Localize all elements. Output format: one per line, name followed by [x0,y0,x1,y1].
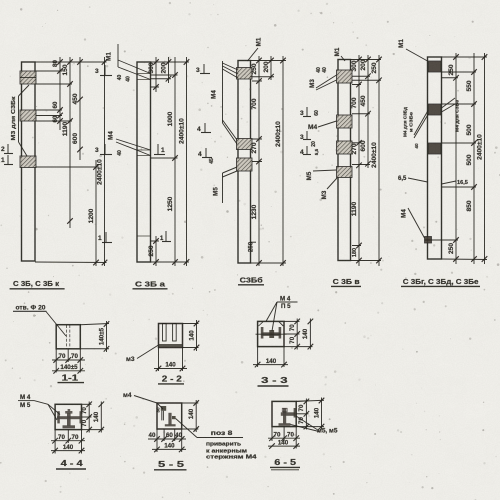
dimension 140 right section 4-4 [82,402,105,433]
dimension line 550/500/500/850 column C3Bg [473,53,475,264]
caption C3Bb [238,276,264,285]
chamfer marks section 3-3 [259,322,284,326]
column C3Ba elevation bar [137,62,151,262]
label 6.5 with arrow column C3Bg [398,176,428,182]
embedded plate M3 lower on column C3B [20,156,36,168]
label M1 top of column C3Ba [106,44,151,80]
anchor rod horizontal section 3-3 [256,327,287,339]
section cut mark 3 column C3Bv [300,107,311,117]
extension lines column C3Bv right [351,60,382,261]
embedded plate 3 column C3Bv [337,141,353,154]
leader lines for M3 label [19,85,30,156]
dimension 70 70 right section 4-4 [81,402,92,433]
column C3Bv elevation bar [338,60,351,261]
section 3-3 outline square [258,321,284,346]
label M3 dlya C3Bk [11,96,17,140]
caption 5-5 [154,459,187,470]
dimension 40 60 40 below section 5-5 [148,429,186,452]
column C3B elevation bar [22,62,36,261]
section cut mark 1 left of column C3B [1,155,13,165]
column C3Bb elevation bar [238,61,251,264]
anchor plate 3 column C3Bg [428,143,441,154]
dimension line 450/600 column C3B [79,57,81,160]
extension lines column C3Bb right [251,61,287,264]
label M4 dlya C3Bd column C3Bg [403,107,429,138]
label M4 column C3Bv [308,121,337,131]
dimension 140 right of section 1-1 [80,321,109,352]
dimension line 300/250 column C3Ba [155,57,157,92]
note poz 8 with leader [176,419,258,461]
column C3Bg elevation bar [428,57,442,259]
label M4 mid column C3Ba [108,131,151,156]
dimension 70 70 below section 6-6 [268,427,300,449]
dimension 250 bottom column C3Ba [148,238,159,265]
label M3 lower column C3Bv with leader [321,178,337,199]
embedded plate 4 column C3Bv [337,167,353,178]
caption 4-4 [56,458,86,469]
dimension line 1200 column C3B [95,160,97,266]
label M4 dlya C3Be right of column C3Bg [442,98,461,132]
section cut mark 4 column C3Bb [197,123,211,133]
caption 2-2 [158,373,184,384]
label M4 column C3Bb with leaders [211,61,239,144]
dimension line 2400 overall column C3B [104,57,106,266]
embedded plate top column C3Bb [237,68,253,80]
embedded plate 1 column C3Bv [337,70,353,83]
section cut mark 3 upper left column C3Ba [95,65,112,76]
T-insert section 6-6 [279,408,297,426]
dimension 140 right section 5-5 [182,400,199,432]
dimension 140 right section 3-3 [284,319,313,350]
label M1 top column C3Bg [398,39,428,61]
section cut mark 4 column C3Bv [300,146,311,156]
section cut mark 3 column C3Bb [196,64,210,74]
dimension line 80/60/60 column C3B [59,57,61,130]
caption 3-3 [258,375,289,386]
dimension line 300/700/270/1190/180 column C3Bv [358,55,360,266]
caption 1-1 [58,372,85,382]
label M4 over P5 section 3-3 [266,296,298,332]
dimension 250 bottom column C3Bb [248,241,255,252]
rail insert section 4-4 [57,409,82,428]
dimension 70 70 right section 3-3 [284,319,300,350]
label m5 m5 with leaders section 6-6 [291,416,339,435]
dimension line 200 column C3Bb [270,56,272,80]
embedded plate lower column C3Bb [237,158,253,171]
label otv F20 with leader [13,304,66,336]
dimension 140 below section 4-4 [51,450,85,452]
caption C3Bg C3Bd C3Be [401,277,480,286]
caption 6-6 [270,457,300,470]
label M4 bottom column C3Bg [401,208,425,238]
embedded plate 2 column C3Bv [337,115,353,128]
dimension 140 below section 1-1 [52,370,85,372]
section 5-5 outline square [157,403,182,429]
section cut mark 1 right of column C3Ba [154,144,165,155]
extension lines column C3Bg right [425,57,488,260]
section 2-2 outline square [159,324,183,348]
extension lines column C3Ba right [151,62,190,262]
anchor plate 1 column C3Bg [428,61,441,72]
label M5 column C3Bv with leader [306,170,337,180]
section cut mark 4 lower column C3Bb [198,148,212,158]
embedded plate M3 top on column C3B [20,71,36,84]
dimension 140 below section 3-3 [253,347,288,368]
section cut mark 3 lower left column C3Ba [95,144,112,155]
caption C3Ba [133,280,168,289]
dimension line 200/450/600 column C3Bv [367,55,369,168]
label 16.5 with arrow column C3Bg [442,180,468,186]
label M5 column C3Bb with leaders [213,167,238,203]
small 40 40 dims column C3Bv [316,67,328,73]
section cut mark 1 bottom right column C3Ba [160,231,171,242]
anchor plate 4 column C3Bg [425,237,432,244]
plate marks at top of column C3Ba [137,74,151,80]
section cut mark 3 lower column C3Bv [300,131,311,141]
dimension line 250 top and bottom column C3Bg [455,53,457,264]
small 40 40 dims column C3Bg [414,143,419,149]
plate marks mid column C3Ba [137,150,151,156]
label m3 with leader section 2-2 [126,345,159,363]
section 6-6 outline square [272,401,296,426]
label m4 with leader section 5-5 [123,392,163,409]
section 1-1 outline square [56,325,80,349]
section cut mark 1 bottom left column C3Ba [98,232,112,243]
dimension 70 70 right section 6-6 [296,399,309,430]
dimension line 250/700/270/1230 column C3Bb [258,56,260,266]
dimension line 2400 column C3Ba [186,57,188,266]
embedded plate mid column C3Bb [237,139,253,150]
dimension 140 right section 6-6 [296,398,324,430]
dimension 70 70 below section 1-1 [52,349,85,373]
section cut mark 2 left of column C3B [1,144,13,154]
plate M3 bottom strip section 2-2 [159,344,182,347]
dimension 70 70 below section 4-4 [51,430,85,454]
dimension 140 below section 5-5 [152,448,186,450]
dimension line 2400 column C3Bg [484,53,486,264]
caption C3B C3Bk [10,279,65,289]
channel bars inside section 2-2 [163,324,177,342]
small 40 40 dims column C3Ba top [117,75,132,82]
channel insert section 5-5 [161,406,176,426]
anchor plate 2 column C3Bg [428,104,441,115]
hole F20 dashed lines section 1-1 [67,325,70,349]
label M1 top column C3Bv [334,47,345,61]
dimension line 150/1190 column C3B [69,57,71,228]
label M1 top column C3Bb [248,37,263,61]
label M3 column C3Bv with leaders [309,75,337,90]
dimension line 200 column C3Ba [168,57,170,83]
dimension 140 below section 6-6 [268,445,300,447]
dimension line 2400 column C3Bb [282,56,284,266]
dimension 140 below section 2-2 [154,348,187,372]
caption C3Bv [331,277,361,286]
embedded plate M3 middle on column C3B [20,110,36,121]
dimension line 1000/1250 column C3Ba [174,57,176,266]
plate mark bottom column C3Ba [137,235,151,237]
dimension 140 right section 2-2 [183,320,200,351]
label M4 over M5 section 4-4 [18,394,60,420]
extension lines column C3B right side [35,62,107,263]
dimension line 250/2400 column C3Bv [378,55,380,266]
section 4-4 outline square [55,404,81,429]
